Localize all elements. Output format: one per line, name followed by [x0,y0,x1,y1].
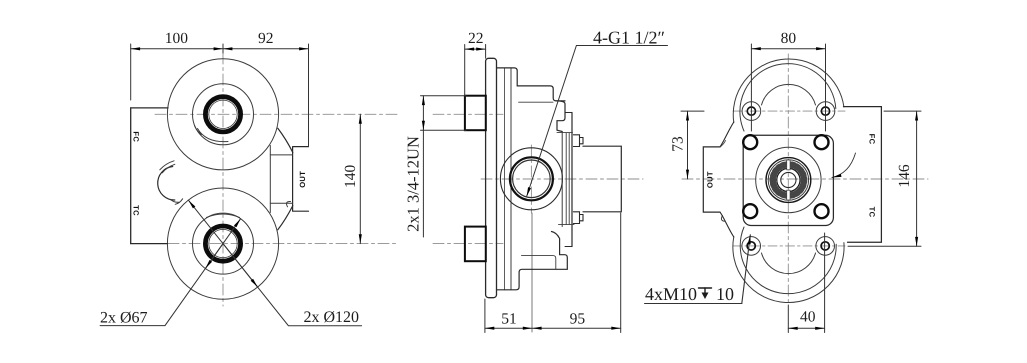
ear curve upper right [278,128,293,152]
leader 2xO120 [188,200,361,326]
centerline top port [433,113,503,115]
OUT tab rectangle [293,147,309,212]
waist lip bottom [171,199,183,205]
OUT port inner vertical [269,146,271,213]
shaft circles [777,168,800,191]
dim 146 ext lines [884,110,921,112]
rear block [583,146,621,212]
centerline vertical through G-port [530,145,532,213]
keyway slots [787,160,790,170]
body front face line [510,68,512,290]
center pilot circle [756,147,821,212]
arc inside top boss [195,126,229,142]
left flat edge of body [130,108,132,244]
bottom boss arch r28 [762,253,816,274]
dim 80 ext lines [750,44,752,131]
body bottom-left horizontal edge [131,243,168,245]
small curl at tab lower corner [287,201,291,206]
dim line 92 [223,48,309,50]
svg-text:140: 140 [342,165,359,189]
arc inside bottom boss [207,214,240,218]
top ear arc r48 [740,64,836,131]
centerline horizontal main [682,178,928,180]
bearing circles [766,158,811,203]
internal ledge top [519,101,553,103]
dim line 100 [131,48,223,50]
port dim line with tail [422,96,424,131]
left wavy profile bottom [720,212,734,237]
M10 leader [742,235,751,304]
top boss arch r28 [762,84,816,105]
top port boss (bold) [465,96,486,131]
dim 100/92 extension lines [130,44,132,100]
rear flat body rectangle [844,107,882,243]
dim line 51 [485,327,532,329]
boss circle bottom (Ø67) [193,213,254,274]
bottom ear arc r48 [740,227,836,294]
centerline horizontal top circle [155,113,399,115]
svg-text:4-G1 1/2″: 4-G1 1/2″ [593,28,665,48]
svg-text:OUT: OUT [298,171,307,188]
corner hole BL [743,204,757,218]
svg-text:80: 80 [781,30,797,47]
svg-text:146: 146 [896,164,913,188]
ear curve lower right [278,206,293,230]
dim line 146 [916,111,918,246]
OUT port ledge bottom [270,202,292,204]
M10 hole bottom-right [816,237,835,256]
OUT port ledge top [270,154,292,156]
svg-text:FC: FC [132,131,141,142]
waist notch left side [158,167,175,201]
front flange plate [486,58,497,297]
port dim ext lines [421,95,467,97]
svg-text:95: 95 [570,310,586,327]
svg-text:OUT: OUT [706,171,715,188]
outer circle top (Ø120) [167,59,278,170]
dim line 80 [751,48,825,50]
svg-text:92: 92 [258,30,274,47]
dim line 40 [788,327,824,329]
threaded ring top [205,97,240,132]
bottom ear arc Ø120 [733,237,844,303]
svg-text:73: 73 [670,136,687,152]
small curl bottom left [721,216,725,222]
spline teeth ring [773,164,804,195]
centerline vertical main [787,54,789,305]
bottom dims ext lines [484,299,486,333]
M10 hole top-right [816,102,835,121]
centerline horizontal bottom circle [147,243,399,245]
centerline top holes [733,110,845,112]
leader 2xO67 [100,219,241,326]
body outline bottom [497,232,568,290]
dim line 95 [532,327,621,329]
G thread leader [527,46,668,197]
dim line 140 [359,114,361,243]
corner hole TL [743,135,757,149]
top ear arc Ø120 [733,59,844,123]
M10 hole top-left [742,102,761,121]
M10 hole bottom-left [742,237,761,256]
left wavy profile top [720,122,734,147]
svg-text:2x Ø120: 2x Ø120 [304,309,360,326]
dim 22 ext lines [464,45,466,96]
centerline bottom holes [733,245,845,247]
bolt top right [573,135,583,147]
svg-text:51: 51 [501,310,517,327]
waist lip top [160,161,175,173]
svg-text:22: 22 [468,30,484,47]
G-port outer circle [500,148,562,210]
body outline top [497,68,566,101]
dim 73 [681,110,704,112]
centerline vertical top circle [222,53,224,306]
centerline bottom port [433,243,503,245]
boss circle top (Ø67) [193,84,254,145]
rear cover plate edges [561,132,563,227]
svg-text:40: 40 [800,309,816,326]
svg-text:TC: TC [132,205,141,216]
rotation arrow [832,153,856,178]
svg-text:10: 10 [716,284,734,304]
svg-text:2x1 3/4-12UN: 2x1 3/4-12UN [404,136,423,232]
bottom port boss (bold) [465,227,486,262]
dim line 22 [465,48,486,50]
svg-text:2x Ø67: 2x Ø67 [100,310,148,327]
threaded ring bottom [205,226,240,261]
OUT tab rear [703,147,720,212]
G-port thread circles [510,157,553,200]
svg-text:4xM10: 4xM10 [645,284,697,304]
bolt bottom right [573,212,583,224]
internal ledge bottom [522,256,556,270]
outer circle bottom (Ø120) [167,188,278,299]
svg-text:100: 100 [165,30,189,47]
top tab [556,101,565,132]
svg-text:FC: FC [868,134,877,145]
dim 40 ext line [824,233,826,333]
centerline horizontal main [481,178,643,180]
body top-left horizontal edge [131,107,168,109]
corner hole TR [815,135,829,149]
square flange [743,135,833,225]
corner hole BR [815,204,829,218]
svg-text:TC: TC [868,207,877,218]
